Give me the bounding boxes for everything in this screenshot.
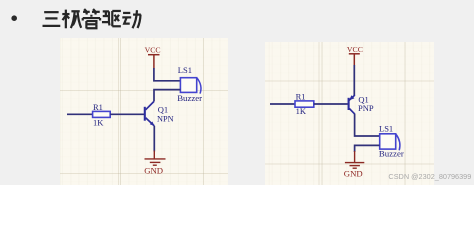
svg-text:Buzzer: Buzzer [379,149,404,159]
svg-text:NPN: NPN [157,115,174,124]
svg-text:GND: GND [144,165,163,175]
power port VCC (left) [145,46,161,69]
svg-text:CSDN @2302_80796399: CSDN @2302_80796399 [388,172,471,181]
svg-text:1K: 1K [296,106,307,116]
right schematic panel background [265,42,434,186]
wire R1 to base of Q1 (right) [314,103,348,105]
power port VCC (right) [347,45,363,66]
svg-text:LS1: LS1 [178,65,192,75]
svg-text:PNP: PNP [358,103,374,113]
transistor Q1 PNP [349,95,355,114]
svg-text:VCC: VCC [347,45,363,54]
buzzer LS1 (right) [380,134,400,151]
wire VCC to buzzer LS1 top pin (left) [154,68,181,81]
char 动 [122,10,141,28]
svg-text:Q1: Q1 [158,104,168,114]
char 驱 [102,11,121,26]
wire R1 to base of Q1 (left) [110,113,144,115]
ground GND (left) [145,151,166,166]
bullet point [11,15,17,21]
char 管 [83,9,100,28]
buzzer LS1 (left) [180,78,201,94]
svg-text:R1: R1 [93,102,103,112]
title 三极管驱动 (drawn strokes) [43,9,141,28]
char 三 [43,12,61,26]
svg-text:R1: R1 [296,91,306,101]
resistor R1 (right) [295,101,314,107]
wire collector of Q1 to buzzer LS1 top pin (right) [355,114,380,136]
svg-text:VCC: VCC [145,46,161,55]
ground GND (right) [345,151,364,168]
wire buzzer LS1 bottom pin to collector of Q1 (left) [154,90,180,102]
svg-text:GND: GND [344,168,363,178]
char 极 [62,10,81,29]
wire VCC to emitter of Q1 (right) [353,65,356,95]
wire emitter of Q1 to GND (left) [153,126,155,152]
wire buzzer LS1 bottom pin to GND (right) [355,145,380,152]
resistor R1 (left) [93,111,111,117]
svg-text:LS1: LS1 [379,123,393,133]
svg-text:1K: 1K [93,117,104,127]
wire input to R1 (left) [67,113,93,115]
transistor Q1 NPN [145,101,155,126]
left schematic panel background [60,38,228,185]
svg-text:Buzzer: Buzzer [177,93,202,103]
wire input to R1 (right) [270,103,295,105]
